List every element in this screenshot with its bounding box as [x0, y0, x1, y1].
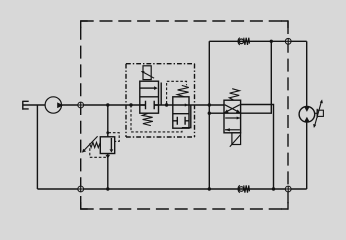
junction block pilot tap [129, 103, 132, 106]
directional valve V3 spring [229, 89, 239, 100]
wire pump to boundary node [62, 104, 146, 106]
sequence valve V2 spring [177, 85, 189, 96]
relief valve RV1 spring [90, 142, 101, 147]
wire inner loop vertical [208, 41, 210, 189]
sequence valve V2 downstream pilot wire [182, 105, 191, 128]
wire V3 lower left port [209, 112, 224, 114]
directional valve V3 parallel position [225, 117, 240, 132]
wire tank to pump [23, 104, 45, 106]
junction inner loop bottom [208, 187, 211, 190]
junction top line to valve B [270, 40, 273, 43]
block drain line (dashed) [131, 105, 182, 132]
directional valve V3 solenoid [230, 133, 241, 147]
sequence valve V2 pilot line (dashed) [167, 81, 187, 103]
enclosure boundary (dashed machine frame) [81, 21, 288, 209]
sequence valve V2 blocked ports [173, 117, 189, 125]
node bottom boundary crossing (circle-cross) [285, 186, 291, 192]
wire relief supply [107, 105, 109, 137]
solenoid valve V1 bottom position blocked ports [140, 101, 159, 109]
solenoid valve V1 solenoid [141, 66, 154, 80]
junction main line at inner loop [208, 103, 211, 106]
wire main pressure line (block to valve) [154, 104, 224, 106]
sequence valve V2 body [173, 97, 189, 128]
wire motor supply [306, 41, 308, 107]
flow arrow on relief outlet [106, 155, 111, 159]
solenoid valve V1 top position flow path [140, 86, 158, 90]
check valve CV2 [238, 185, 249, 192]
directional valve V3 crossed position [224, 105, 240, 113]
motor M1 [299, 107, 315, 123]
motor M1 variable arrow [313, 99, 323, 128]
node top boundary crossing (circle-cross) [285, 38, 291, 44]
wire V3 port A to bottom line [241, 105, 274, 190]
junction bottom line to valve A [272, 187, 275, 190]
motor M1 shaft box [315, 109, 324, 118]
wire motor return [306, 122, 308, 189]
relief valve RV1 drain line (dashed) [90, 148, 106, 157]
wire relief outlet to tank line [107, 154, 109, 190]
junction relief tee [106, 103, 109, 106]
node T boundary crossing (circle-cross) [78, 186, 84, 192]
solenoid valve V1 spring [142, 113, 153, 125]
relief valve RV1 adjustment arrow [82, 136, 98, 152]
wire left return vertical [36, 105, 38, 189]
junction relief pilot tap [106, 131, 109, 134]
check valve CV1 [238, 38, 249, 45]
manifold block boundary (dash-dot) [126, 64, 195, 137]
wire bottom return line [37, 188, 306, 190]
sequence valve V2 flow arrow [185, 103, 188, 106]
directional valve V3 body [224, 100, 241, 133]
pump P1 [45, 97, 63, 113]
solenoid valve V1 body [140, 81, 159, 113]
enclosure boundary corner ticks [81, 21, 288, 209]
tank T1 [23, 101, 29, 110]
junction lower port tee [208, 112, 211, 115]
relief valve RV1 body [100, 137, 114, 154]
junction pilot tap for V2 [165, 103, 168, 106]
wire V1 bypass vertical [160, 83, 162, 106]
wire top line [209, 40, 306, 42]
node P boundary crossing (circle-cross) [78, 102, 84, 108]
junction relief drain on bottom line [106, 187, 109, 190]
wire V3 port B to top line [241, 41, 272, 113]
relief valve RV1 pilot line (dashed) [108, 133, 119, 142]
